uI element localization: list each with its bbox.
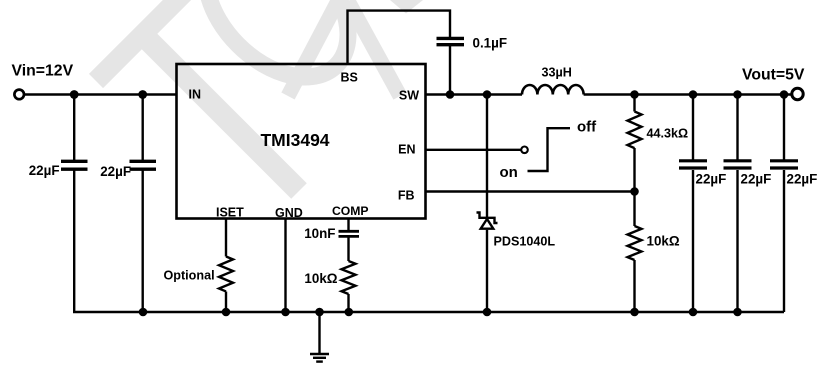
wire BS bootstrap xyxy=(348,11,451,64)
capacitor C6 22uF xyxy=(770,95,798,313)
node diode ground xyxy=(483,308,492,317)
svg-text:GND: GND xyxy=(275,206,303,220)
capacitor C3 0.1uF xyxy=(437,38,465,94)
node GND ground xyxy=(281,308,290,317)
svg-text:IN: IN xyxy=(189,88,202,102)
node output cap C5 xyxy=(733,90,742,99)
svg-text:ISET: ISET xyxy=(216,206,244,220)
ground symbol xyxy=(310,312,329,362)
capacitor C2 22uF xyxy=(130,95,157,313)
inductor L1 33uH xyxy=(522,85,584,95)
svg-text:22µF: 22µF xyxy=(787,172,818,187)
node cap2 ground xyxy=(139,308,148,317)
svg-text:PDS1040L: PDS1040L xyxy=(494,235,556,249)
wire COMP xyxy=(347,219,349,232)
svg-text:EN: EN xyxy=(398,143,415,157)
node SW-C3 xyxy=(446,90,455,99)
svg-text:FB: FB xyxy=(398,189,415,203)
watermark xyxy=(96,0,423,191)
node ground stem xyxy=(315,308,324,317)
svg-text:22µF: 22µF xyxy=(696,172,727,187)
svg-text:off: off xyxy=(577,119,597,136)
wire Vin to IN xyxy=(25,93,177,95)
svg-text:33µH: 33µH xyxy=(542,66,572,80)
capacitor C4 22uF xyxy=(679,95,707,313)
node input cap2 xyxy=(138,90,147,99)
node output cap C6 xyxy=(780,90,789,99)
node output divider tap xyxy=(630,90,639,99)
svg-text:22µF: 22µF xyxy=(29,163,60,178)
IC U1 TMI3494 xyxy=(177,64,426,219)
svg-text:SW: SW xyxy=(399,89,419,103)
svg-text:22µF: 22µF xyxy=(100,164,131,179)
capacitor C5 22uF xyxy=(724,95,752,313)
node FB divider xyxy=(630,187,639,196)
svg-text:0.1µF: 0.1µF xyxy=(473,36,508,51)
svg-text:44.3kΩ: 44.3kΩ xyxy=(647,127,689,141)
svg-text:22µF: 22µF xyxy=(741,172,772,187)
resistor R2 10k xyxy=(628,192,642,313)
node cap4 ground xyxy=(689,308,698,317)
capacitor C7 10nF xyxy=(339,231,360,261)
wire FB xyxy=(426,190,635,192)
wire SW to inductor xyxy=(426,93,523,95)
svg-text:BS: BS xyxy=(341,71,358,85)
node input cap1 xyxy=(70,90,79,99)
wire GND pin xyxy=(284,219,286,313)
svg-text:Vout=5V: Vout=5V xyxy=(742,66,805,83)
EN switch terminal xyxy=(521,147,528,154)
wire inductor to Vout xyxy=(584,93,791,95)
resistor R3 optional xyxy=(219,257,233,313)
Vout terminal xyxy=(792,88,803,99)
svg-text:10kΩ: 10kΩ xyxy=(647,234,680,249)
bottom ground rail xyxy=(73,311,784,313)
switch off/on bracket xyxy=(528,128,571,171)
svg-text:TMI3494: TMI3494 xyxy=(260,130,329,150)
svg-text:10kΩ: 10kΩ xyxy=(304,271,337,286)
svg-text:COMP: COMP xyxy=(332,204,369,218)
capacitor C1 22uF xyxy=(61,95,88,313)
node output cap C4 xyxy=(689,90,698,99)
svg-text:Vin=12V: Vin=12V xyxy=(12,63,74,80)
wire ISET xyxy=(225,219,227,257)
wire SW node down to diode xyxy=(486,95,488,218)
wire EN xyxy=(426,149,521,151)
resistor R1 44.3k xyxy=(628,95,642,192)
diode D1 PDS1040L schottky xyxy=(477,213,498,313)
Vin terminal xyxy=(14,90,24,100)
svg-text:on: on xyxy=(500,164,518,181)
node SW-diode xyxy=(483,90,492,99)
node COMP ground xyxy=(345,308,354,317)
node cap5 ground xyxy=(733,308,742,317)
svg-text:10nF: 10nF xyxy=(304,226,335,241)
svg-text:Optional: Optional xyxy=(164,269,215,283)
node ISET ground xyxy=(222,308,231,317)
resistor R4 10k comp xyxy=(342,261,356,312)
node R2 ground xyxy=(630,308,639,317)
